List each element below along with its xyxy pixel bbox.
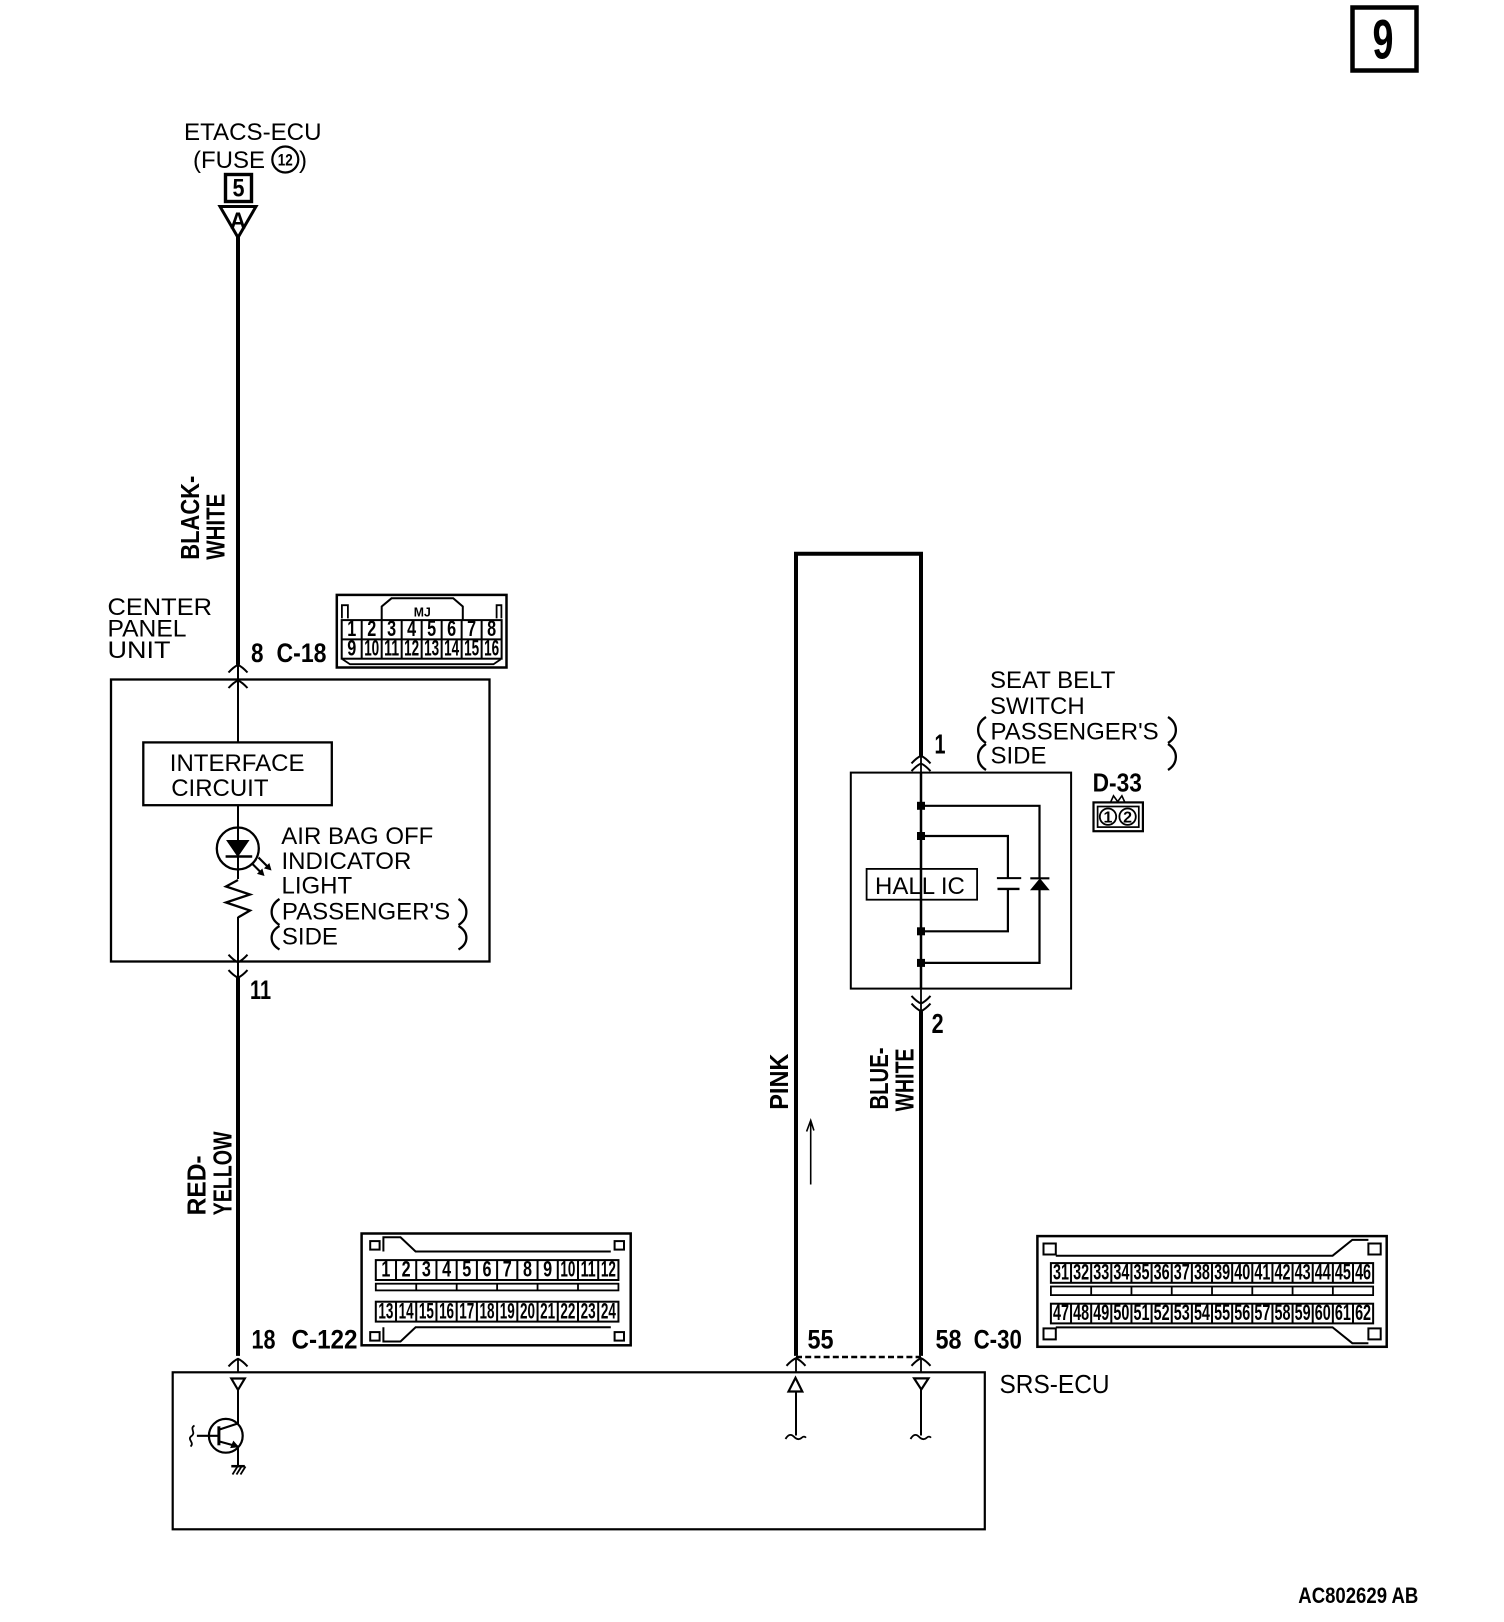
svg-text:2: 2 <box>1123 810 1132 827</box>
svg-text:11: 11 <box>581 1257 596 1282</box>
svg-text:12: 12 <box>601 1257 616 1282</box>
svg-text:13: 13 <box>424 635 439 660</box>
pin symbol (female) at SRS pin 58 <box>911 1378 932 1439</box>
fuse 5 <box>226 175 252 203</box>
pin symbol (female) at SRS pin 18 <box>231 1379 245 1390</box>
svg-text:(FUSE: (FUSE <box>193 147 265 174</box>
junction chevrons at pin 11 <box>229 955 248 978</box>
junction chevrons at SRS pins 55 and 58 <box>787 1358 931 1372</box>
connector chevrons at seat belt switch pin 1 (D-33) <box>912 756 931 773</box>
svg-text:10: 10 <box>560 1257 575 1282</box>
svg-text:3: 3 <box>422 1257 431 1282</box>
unit box CENTER PANEL UNIT <box>111 680 490 962</box>
wire interface circuit to LED <box>237 805 239 840</box>
svg-text:SIDE: SIDE <box>991 742 1047 769</box>
svg-text:40: 40 <box>1234 1260 1250 1285</box>
svg-text:32: 32 <box>1073 1260 1089 1285</box>
svg-text:A: A <box>230 208 246 234</box>
svg-text:49: 49 <box>1093 1300 1109 1325</box>
svg-text:6: 6 <box>483 1257 492 1282</box>
connector C-18 pinout diagram <box>337 595 507 668</box>
svg-text:11: 11 <box>250 975 271 1005</box>
power feed connector symbol A <box>220 207 256 238</box>
svg-text:45: 45 <box>1335 1260 1351 1285</box>
svg-text:4: 4 <box>442 1257 452 1282</box>
diode (outer branch) <box>921 806 1049 963</box>
svg-text:9: 9 <box>543 1257 552 1282</box>
svg-text:8: 8 <box>523 1257 532 1282</box>
resistor (indicator light) <box>226 880 250 918</box>
svg-text:62: 62 <box>1355 1300 1371 1325</box>
svg-text:60: 60 <box>1315 1300 1331 1325</box>
wire inside seat belt switch (pin 1 to pin 2) <box>920 773 923 989</box>
svg-text:15: 15 <box>464 635 479 660</box>
svg-text:33: 33 <box>1093 1260 1109 1285</box>
svg-text:HALL IC: HALL IC <box>875 873 965 900</box>
svg-text:16: 16 <box>439 1298 454 1323</box>
svg-text:7: 7 <box>503 1257 512 1282</box>
page number 9 <box>1353 8 1417 71</box>
seat belt switch box <box>851 773 1071 989</box>
svg-text:LIGHT: LIGHT <box>282 872 353 899</box>
connector C-122 pinout diagram <box>362 1234 631 1346</box>
svg-text:47: 47 <box>1053 1300 1069 1325</box>
ground (chassis) <box>231 1447 245 1475</box>
svg-text:C-18: C-18 <box>277 638 327 668</box>
svg-text:39: 39 <box>1214 1260 1230 1285</box>
svg-text:52: 52 <box>1154 1300 1170 1325</box>
svg-text:35: 35 <box>1134 1260 1150 1285</box>
svg-text:12: 12 <box>404 635 419 660</box>
interface circuit block <box>143 742 331 805</box>
svg-text:18: 18 <box>252 1325 276 1355</box>
svg-text:14: 14 <box>399 1298 414 1323</box>
wire resistor to pin 11 <box>237 917 239 978</box>
svg-text:36: 36 <box>1154 1260 1170 1285</box>
svg-text:8: 8 <box>251 638 264 668</box>
svg-text:UNIT: UNIT <box>108 637 171 664</box>
svg-text:22: 22 <box>560 1298 575 1323</box>
svg-text:WHITE: WHITE <box>890 1048 920 1111</box>
svg-text:43: 43 <box>1295 1260 1311 1285</box>
svg-text:9: 9 <box>1373 8 1394 71</box>
svg-text:PASSENGER'S: PASSENGER'S <box>282 899 450 926</box>
svg-text:AIR BAG OFF: AIR BAG OFF <box>281 823 433 850</box>
svg-text:44: 44 <box>1315 1260 1331 1285</box>
svg-text:55: 55 <box>1214 1300 1230 1325</box>
wire BLACK-WHITE: fuse A to center panel unit pin 8 <box>236 236 240 665</box>
svg-text:24: 24 <box>601 1298 616 1323</box>
svg-text:16: 16 <box>484 635 499 660</box>
capacitor (inner branch) <box>921 836 1021 931</box>
svg-text:2: 2 <box>932 1008 944 1039</box>
svg-text:12: 12 <box>278 151 293 170</box>
junction chevrons at C-18 pin 8 <box>229 665 248 688</box>
svg-text:11: 11 <box>384 635 399 660</box>
svg-text:5: 5 <box>462 1257 471 1282</box>
svg-text:31: 31 <box>1053 1260 1069 1285</box>
svg-text:15: 15 <box>419 1298 434 1323</box>
junction chevron at SRS-ECU pin 18 <box>229 1359 248 1367</box>
svg-text:): ) <box>299 147 307 174</box>
svg-text:17: 17 <box>459 1298 474 1323</box>
svg-text:19: 19 <box>500 1298 515 1323</box>
svg-text:42: 42 <box>1275 1260 1291 1285</box>
svg-text:51: 51 <box>1134 1300 1150 1325</box>
svg-text:18: 18 <box>480 1298 495 1323</box>
svg-text:C-30: C-30 <box>974 1325 1022 1355</box>
svg-text:2: 2 <box>402 1257 411 1282</box>
svg-text:58: 58 <box>936 1325 962 1355</box>
svg-text:AC802629 AB: AC802629 AB <box>1298 1583 1418 1608</box>
svg-text:CIRCUIT: CIRCUIT <box>171 775 269 802</box>
svg-text:1: 1 <box>381 1257 390 1282</box>
flow arrow beside PINK wire <box>807 1121 814 1185</box>
svg-text:21: 21 <box>540 1298 555 1323</box>
svg-text:1: 1 <box>1104 810 1113 827</box>
label AIR BAG OFF INDICATOR LIGHT (PASSENGER'S SIDE) <box>272 823 467 950</box>
svg-text:PINK: PINK <box>764 1054 794 1110</box>
svg-text:D-33: D-33 <box>1093 768 1142 798</box>
svg-text:38: 38 <box>1194 1260 1210 1285</box>
svg-text:5: 5 <box>233 175 245 203</box>
wire pin 18 to transistor <box>237 1390 239 1425</box>
svg-text:56: 56 <box>1234 1300 1250 1325</box>
svg-text:54: 54 <box>1194 1300 1210 1325</box>
svg-text:48: 48 <box>1073 1300 1089 1325</box>
svg-text:C-122: C-122 <box>292 1325 358 1355</box>
wire LED to resistor <box>237 857 239 880</box>
svg-text:ETACS-ECU: ETACS-ECU <box>184 119 322 146</box>
svg-text:9: 9 <box>347 635 356 660</box>
junction nodes on switch wire <box>917 802 925 967</box>
svg-text:58: 58 <box>1275 1300 1291 1325</box>
svg-text:SIDE: SIDE <box>282 923 338 950</box>
label CENTER PANEL UNIT <box>108 594 213 664</box>
pin symbol (male) at SRS pin 55 <box>786 1378 807 1439</box>
wire label BLUE-WHITE <box>864 1048 920 1112</box>
connector C-30 pinout diagram <box>1037 1236 1386 1347</box>
svg-text:53: 53 <box>1174 1300 1190 1325</box>
svg-text:SWITCH: SWITCH <box>990 693 1085 720</box>
wire label RED-YELLOW <box>182 1131 238 1215</box>
svg-text:46: 46 <box>1355 1260 1371 1285</box>
wire pin 8 to interface circuit <box>237 665 239 743</box>
wire label BLACK-WHITE <box>175 476 231 560</box>
hall ic block <box>867 869 978 900</box>
svg-text:INDICATOR: INDICATOR <box>282 848 412 875</box>
svg-text:61: 61 <box>1335 1300 1351 1325</box>
svg-text:SEAT BELT: SEAT BELT <box>990 667 1116 694</box>
svg-text:55: 55 <box>808 1325 834 1355</box>
svg-text:14: 14 <box>444 635 459 660</box>
wire BLUE-WHITE: switch pin 2 to SRS pin 58 <box>919 1011 923 1356</box>
svg-text:SRS-ECU: SRS-ECU <box>1000 1369 1110 1399</box>
svg-text:57: 57 <box>1254 1300 1270 1325</box>
svg-text:41: 41 <box>1254 1260 1270 1285</box>
svg-text:37: 37 <box>1174 1260 1190 1285</box>
svg-text:59: 59 <box>1295 1300 1311 1325</box>
wire PINK: SRS pin 55 up and over to seat belt switch pin 1 <box>796 554 921 1356</box>
svg-text:YELLOW: YELLOW <box>208 1131 238 1215</box>
LED air bag off indicator (passenger side) <box>217 828 271 876</box>
connector D-33 pinout diagram <box>1094 796 1143 831</box>
svg-text:WHITE: WHITE <box>201 494 231 560</box>
svg-text:34: 34 <box>1113 1260 1129 1285</box>
svg-text:INTERFACE: INTERFACE <box>170 750 305 777</box>
svg-text:10: 10 <box>364 635 379 660</box>
unit box SRS-ECU <box>173 1372 985 1529</box>
svg-text:50: 50 <box>1113 1300 1129 1325</box>
transistor Q1 (SRS-ECU internal) <box>190 1419 243 1453</box>
connector chevrons at seat belt switch pin 2 (D-33) <box>912 989 931 1012</box>
svg-text:20: 20 <box>520 1298 535 1323</box>
svg-text:23: 23 <box>581 1298 596 1323</box>
dashed in-line connector line between pins 55 and 58 <box>796 1356 921 1358</box>
svg-text:1: 1 <box>935 729 946 760</box>
node ETACS-ECU (FUSE 12) label <box>184 119 322 174</box>
label SEAT BELT SWITCH (PASSENGER'S SIDE) <box>978 667 1176 770</box>
svg-text:13: 13 <box>378 1298 393 1323</box>
wire RED-YELLOW: pin 11 to SRS-ECU pin 18 <box>236 978 240 1356</box>
